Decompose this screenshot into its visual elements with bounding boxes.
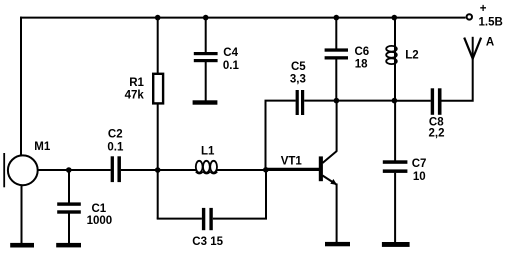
svg-text:C1: C1 [92, 203, 107, 215]
wire mic output row [37, 169, 111, 171]
wire L2 column [394, 18, 396, 101]
node junction dot mic/C1/C2 [66, 167, 72, 173]
node junction dot base/L1/C5/C3 [263, 167, 269, 173]
svg-text:18: 18 [355, 59, 368, 71]
svg-text:A: A [486, 37, 494, 49]
transistor VT1 base bar [319, 156, 323, 181]
wire C1 bottom lead [68, 214, 70, 244]
wire mid row to C5 [265, 100, 296, 102]
svg-text:0.1: 0.1 [107, 142, 124, 154]
wire top rail [20, 17, 466, 19]
wire C4 top lead [205, 17, 207, 53]
node junction dot C2/R1/L1/C3 [155, 167, 161, 173]
node junction dot R1/top rail [155, 15, 161, 21]
wire C3 row right + riser [213, 170, 266, 219]
capacitor C1 [57, 202, 81, 205]
inductor L2 [386, 46, 397, 52]
svg-text:C5: C5 [291, 61, 306, 73]
microphone M1 [8, 155, 38, 185]
ground under C1 [56, 243, 81, 248]
svg-text:VT1: VT1 [281, 156, 303, 168]
svg-text:M1: M1 [34, 141, 51, 153]
node junction dot L2/top rail [392, 15, 398, 21]
svg-text:2,2: 2,2 [429, 128, 445, 140]
node junction dot C4/top rail [203, 15, 209, 21]
capacitor C3 [202, 208, 205, 230]
wire C6 bottom lead [335, 60, 337, 101]
wire C6 top lead [335, 18, 337, 49]
ground bar under C4 [193, 100, 218, 104]
resistor R1 body [153, 74, 163, 104]
inductor L1 [196, 161, 203, 173]
wire C4 bottom lead [205, 62, 207, 101]
transistor VT1 emitter diagonal [323, 176, 337, 185]
capacitor C4 [194, 52, 218, 55]
antenna A [472, 37, 474, 60]
battery terminal +1.5V [467, 14, 472, 19]
wire C1 top lead [68, 170, 70, 203]
wire C7 top lead [394, 101, 396, 161]
svg-text:1000: 1000 [87, 215, 113, 227]
svg-text:L2: L2 [405, 50, 418, 62]
svg-text:C3 15: C3 15 [192, 236, 223, 248]
capacitor C5 [296, 90, 299, 115]
svg-text:C6: C6 [355, 46, 370, 58]
transistor VT1 emitter arrow [330, 179, 337, 185]
wire C8 row from L2 node [394, 100, 430, 102]
wire L1 to base node [217, 169, 267, 171]
svg-text:R1: R1 [129, 77, 144, 89]
node junction dot L2/C7/C8 [392, 98, 398, 104]
capacitor C8 [431, 88, 434, 115]
ground under emitter [325, 242, 350, 246]
wire C7 bottom lead [394, 173, 396, 243]
wire mid row C5 to L2 node [304, 100, 394, 102]
capacitor C2 [111, 156, 114, 182]
transistor VT1 collector diagonal [323, 151, 337, 163]
wire R1 bottom lead / tank left riser [157, 105, 159, 219]
wire collector column [336, 101, 338, 152]
wire mic bottom to ground [21, 186, 23, 243]
svg-text:3,3: 3,3 [290, 73, 306, 85]
capacitor C6 [325, 48, 348, 51]
node junction dot C6/top rail [334, 15, 340, 21]
ground under microphone [10, 243, 34, 248]
svg-text:C2: C2 [108, 129, 123, 141]
wire C2 to node [121, 169, 197, 171]
wire base lead [266, 168, 320, 171]
svg-text:47k: 47k [125, 89, 145, 101]
svg-text:C8: C8 [429, 116, 444, 128]
wire C8 to antenna [442, 58, 473, 101]
node junction dot collector/C5/C6 [334, 98, 340, 104]
wire emitter to ground [336, 184, 338, 243]
svg-text:1.5B: 1.5B [479, 17, 503, 29]
ground under C7 [382, 242, 410, 247]
svg-text:C4: C4 [223, 47, 238, 59]
wire C5 riser [265, 101, 267, 170]
svg-text:0.1: 0.1 [223, 60, 240, 72]
svg-text:+: + [480, 3, 487, 15]
capacitor C7 [383, 160, 408, 164]
wire R1 top lead [157, 18, 159, 73]
svg-text:10: 10 [413, 171, 426, 183]
wire C3 row left [157, 218, 202, 220]
wire left vertical from corner to microphone [20, 17, 22, 156]
svg-text:L1: L1 [201, 146, 215, 158]
svg-text:C7: C7 [412, 158, 427, 170]
